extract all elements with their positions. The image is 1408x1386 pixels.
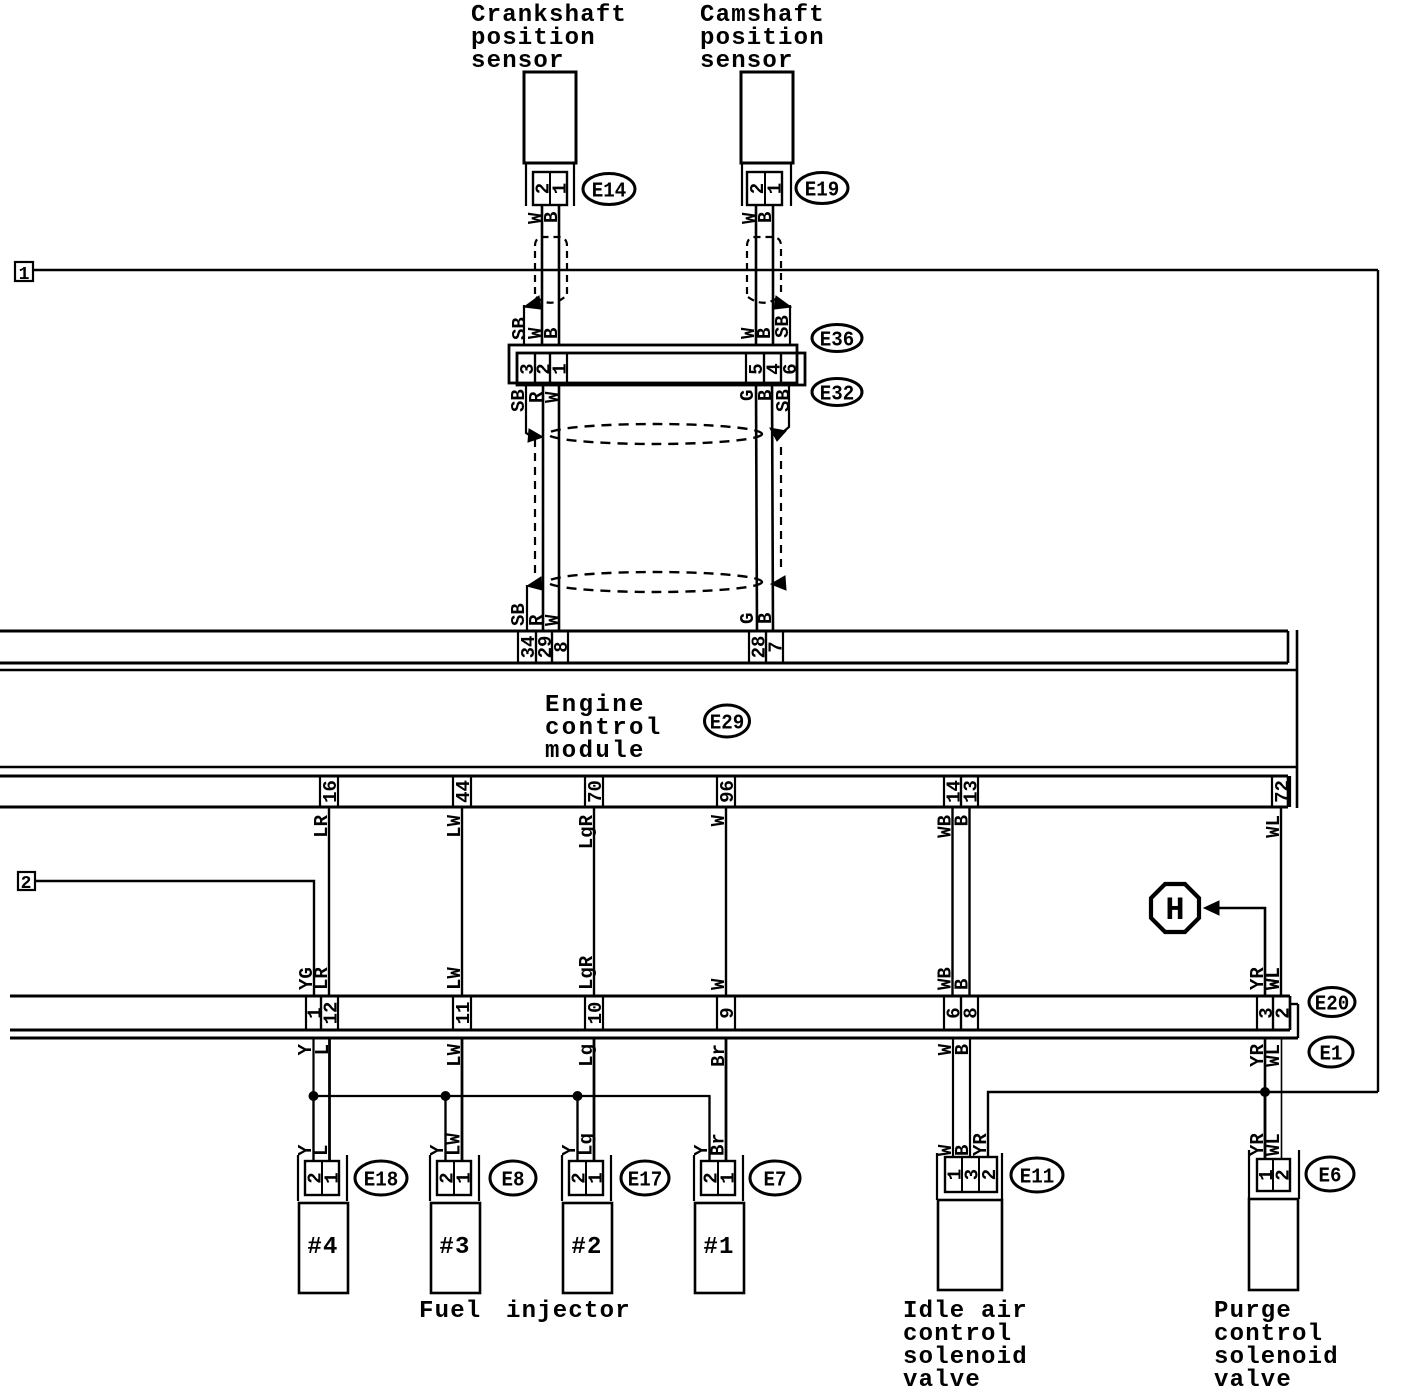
connector E20 oval label: [1309, 988, 1355, 1017]
svg-text:1: 1: [586, 1172, 608, 1183]
wire WB from ECM to E20: [951, 807, 953, 996]
svg-text:valve: valve: [903, 1367, 981, 1386]
wire from node 1 right side down: [1377, 270, 1379, 1092]
svg-text:B: B: [541, 328, 563, 339]
wire B from E1 pin 8 to E11 pin 3: [969, 1038, 971, 1157]
wire LW from ECM to E20: [461, 807, 463, 996]
svg-text:injector: injector: [506, 1298, 631, 1325]
svg-text:E36: E36: [820, 330, 855, 353]
arrow pointing to H: [1204, 901, 1219, 915]
fuel injector group label: [419, 1298, 631, 1325]
svg-text:E11: E11: [1020, 1167, 1055, 1190]
wire W from E32 pin 1 to ECM 8: [558, 385, 561, 632]
svg-text:E8: E8: [502, 1170, 525, 1193]
svg-text:#2: #2: [571, 1234, 602, 1261]
svg-text:SB: SB: [773, 389, 795, 412]
connector E6 pin box pins 1,2: [1256, 1159, 1295, 1191]
svg-text:E17: E17: [628, 1170, 663, 1193]
svg-text:2: 2: [979, 1169, 1001, 1180]
svg-text:LR: LR: [311, 814, 333, 837]
idle air control solenoid valve label: [903, 1298, 1028, 1386]
junction dot YR purge: [1260, 1087, 1270, 1097]
svg-text:L: L: [311, 1145, 333, 1156]
shield dashed drain left: [534, 439, 536, 577]
wire YR into E6 pin 1: [1264, 1092, 1267, 1159]
wire from node 1 across top: [33, 269, 1378, 271]
wire Y from E1 pin 1 to injector bus: [312, 1038, 314, 1161]
Y branch to injector 2: [576, 1096, 578, 1161]
wire YG from node 2 to E20 pin 1: [35, 881, 314, 996]
connector E18 oval label: [355, 1161, 407, 1195]
svg-text:E6: E6: [1319, 1166, 1342, 1189]
svg-text:E29: E29: [710, 713, 745, 736]
wire Y into E17 pin 2: [576, 1096, 578, 1161]
svg-text:10: 10: [585, 1002, 607, 1025]
svg-text:1: 1: [550, 363, 572, 374]
wire W from E1 pin 6 to E11 pin 1: [952, 1038, 954, 1157]
svg-text:7: 7: [766, 641, 788, 652]
svg-text:WL: WL: [1263, 1133, 1285, 1156]
shield drain arrow upper right: [770, 428, 786, 441]
wire R from E32 pin 2 to ECM 29: [542, 385, 545, 632]
svg-text:W: W: [708, 978, 730, 990]
svg-text:E20: E20: [1315, 994, 1350, 1017]
svg-text:Br: Br: [708, 1044, 730, 1067]
svg-text:13: 13: [961, 780, 983, 803]
svg-text:E32: E32: [820, 384, 855, 407]
junction dot injector 3: [441, 1091, 451, 1101]
fuel injector #2 pin box pins 2,1: [569, 1161, 608, 1195]
camshaft position sensor label: [700, 2, 825, 75]
node 2 box (page connector): [18, 872, 35, 890]
ECM bottom row pin cells 16,44,70,96,14,13,72: [320, 776, 1294, 807]
svg-text:B: B: [541, 212, 563, 223]
wire B from E19 pin 1: [772, 205, 775, 345]
connector E8 oval label: [490, 1161, 536, 1195]
junction dot injector 4: [309, 1091, 319, 1101]
fuel injector #4 body: [299, 1203, 348, 1293]
svg-text:44: 44: [453, 780, 475, 803]
svg-text:LW: LW: [444, 967, 466, 990]
idle air control valve body: [938, 1200, 1002, 1290]
connector E29 oval label: [705, 705, 750, 737]
fuel injector #3 body: [431, 1203, 480, 1293]
wire B from ECM to E20: [968, 807, 970, 996]
connector E14 pin box pins 2,1: [533, 172, 572, 205]
fuel injector #2 connector housing: [562, 1155, 611, 1201]
svg-text:W: W: [542, 391, 564, 403]
shield drain wire SB to E36 pin 3: [523, 305, 525, 345]
wire B from E14 pin 1: [558, 205, 561, 345]
ECM top row pin cells 34,29,8,28,7: [518, 631, 788, 663]
wire W from E14 pin 2: [541, 205, 544, 345]
svg-text:#3: #3: [439, 1234, 470, 1261]
svg-text:Lg: Lg: [576, 1044, 598, 1067]
ECM bottom connector row: [0, 776, 1288, 807]
shield drain wire SB to E36 pin 6: [789, 305, 791, 345]
svg-text:1: 1: [550, 183, 572, 194]
H symbol (to next page) octagon: [1151, 884, 1199, 932]
wire Y into E8 pin 2: [444, 1096, 446, 1161]
svg-text:8: 8: [961, 1007, 983, 1018]
fuel injector #4 connector housing: [298, 1155, 347, 1201]
connector E20 row: [10, 996, 1290, 1030]
svg-text:LW: LW: [444, 1133, 466, 1156]
wire W from E19 pin 2: [755, 205, 758, 345]
wire B from E32 pin 4 to ECM 7: [772, 385, 773, 632]
svg-text:#1: #1: [703, 1234, 734, 1261]
fuel injector #4 pin box pins 2,1: [305, 1161, 344, 1195]
svg-text:Fuel: Fuel: [419, 1298, 481, 1325]
ECM top connector row: [0, 631, 1288, 663]
svg-text:Br: Br: [708, 1133, 730, 1156]
YR bus from E11 pin 2 to node 1 wire: [988, 1092, 1378, 1157]
wire YR from E20 pin 3 to H: [1218, 908, 1265, 996]
purge control valve body: [1249, 1199, 1298, 1290]
shield drain arrow (crank, to E36 pin 3): [524, 296, 541, 309]
connector E14 housing: [526, 163, 574, 206]
connector E36 oval label: [812, 325, 862, 353]
idle air control valve connector housing: [937, 1153, 1002, 1200]
wire LgR from ECM to E20: [593, 807, 595, 996]
svg-text:E14: E14: [592, 181, 627, 204]
fuel injector #1 connector housing: [694, 1155, 743, 1201]
shield drain arrow (cam, to E36 pin 6): [774, 296, 791, 309]
svg-text:E18: E18: [364, 1170, 399, 1193]
svg-text:1: 1: [718, 1172, 740, 1183]
svg-text:9: 9: [717, 1007, 739, 1018]
connector E7 oval label: [750, 1161, 800, 1195]
shield drain arrow upper left: [528, 429, 543, 442]
connector E17 oval label: [621, 1161, 669, 1195]
shield oval upper (dashed ellipse): [548, 424, 762, 444]
svg-text:B: B: [952, 815, 974, 826]
connector E6 oval label: [1306, 1157, 1354, 1191]
wire WL from E1 pin 2 to E6 pin 2: [1281, 1038, 1283, 1159]
engine control module label: [545, 692, 663, 765]
svg-text:module: module: [545, 738, 646, 765]
svg-text:16: 16: [320, 780, 342, 803]
wire G from E32 pin 5 to ECM 28: [756, 385, 757, 632]
ECM body box: [0, 630, 1297, 808]
connector E19 pin box pins 2,1: [747, 172, 787, 205]
fuel injector #2 body: [563, 1203, 612, 1293]
shield oval lower (dashed ellipse): [548, 572, 762, 592]
shield drain SB below E32 pin 3: [526, 385, 531, 436]
svg-text:W: W: [708, 814, 730, 826]
E36/E32 pin cells 3,2,1 and 5,4,6: [517, 353, 802, 385]
svg-text:72: 72: [1272, 780, 1294, 803]
svg-text:1: 1: [19, 265, 30, 285]
svg-text:WL: WL: [1263, 815, 1285, 838]
svg-text:B: B: [755, 212, 777, 223]
connector E11 oval label: [1011, 1158, 1063, 1192]
svg-text:valve: valve: [1214, 1367, 1292, 1386]
svg-text:6: 6: [780, 363, 802, 374]
wire WL from ECM to E20: [1280, 807, 1282, 996]
svg-text:LgR: LgR: [576, 955, 598, 990]
purge control solenoid valve label: [1214, 1298, 1339, 1386]
camshaft position sensor body: [741, 72, 793, 163]
node 1 box (page connector): [15, 262, 33, 281]
svg-text:E19: E19: [805, 180, 840, 203]
wire LW from E1 pin 11 to injector 3: [461, 1038, 464, 1161]
wire W from ECM to E20: [725, 807, 727, 996]
svg-text:WL: WL: [1263, 1044, 1285, 1067]
svg-text:B: B: [952, 1145, 974, 1156]
shield around cam sensor wires (dashed): [747, 237, 781, 294]
svg-text:B: B: [952, 1044, 974, 1055]
wire LR from ECM to E20: [328, 807, 330, 996]
connector E36 box: [509, 345, 797, 383]
junction dot injector 2: [573, 1091, 583, 1101]
svg-text:W: W: [542, 614, 564, 626]
shield dashed drain right: [780, 447, 782, 573]
svg-text:E7: E7: [764, 1170, 787, 1193]
connector E32 oval label: [812, 379, 862, 407]
connector E1 oval label: [1309, 1037, 1353, 1067]
crankshaft position sensor label: [471, 2, 627, 75]
wire Y into E7 pin 2: [708, 1096, 710, 1161]
fuel injector #3 connector housing: [430, 1155, 479, 1201]
svg-text:B: B: [952, 979, 974, 990]
shield drain arrow lower right: [771, 576, 786, 590]
fuel injector #3 pin box pins 2,1: [437, 1161, 476, 1195]
svg-text:LgR: LgR: [576, 814, 598, 849]
purge control valve connector housing: [1249, 1150, 1299, 1199]
svg-text:1: 1: [322, 1172, 344, 1183]
svg-text:LW: LW: [444, 814, 466, 837]
svg-text:96: 96: [717, 780, 739, 803]
svg-text:E1: E1: [1320, 1044, 1343, 1067]
fuel injector #1 body: [695, 1203, 744, 1293]
svg-text:YG: YG: [296, 967, 318, 990]
connector E32 box: [517, 353, 805, 385]
wire Br from E1 pin 9 to injector 1: [725, 1038, 728, 1161]
E20/E1 pin cells: [305, 996, 1295, 1030]
crankshaft position sensor body: [524, 72, 576, 163]
svg-text:2: 2: [1273, 1169, 1295, 1180]
shield around crank sensor wires (dashed): [535, 237, 567, 294]
svg-text:B: B: [754, 328, 776, 339]
fuel injector #1 pin box pins 2,1: [701, 1161, 740, 1195]
injector common Y bus: [314, 1096, 710, 1161]
svg-text:1: 1: [765, 183, 787, 194]
shield drain SB below E32 pin 6: [783, 385, 789, 432]
svg-text:8: 8: [551, 641, 573, 652]
svg-text:#4: #4: [307, 1234, 338, 1261]
svg-text:L: L: [312, 1044, 334, 1055]
wire L from E1 pin 12 to injector 4: [328, 1038, 331, 1161]
shield drain arrow lower left: [527, 577, 542, 590]
wire Y into E18 pin 2: [312, 1096, 314, 1161]
svg-text:WL: WL: [1263, 967, 1285, 990]
Y branch to injector 3: [444, 1096, 446, 1161]
shield drain SB into ECM 34: [526, 585, 528, 632]
svg-text:B: B: [755, 613, 777, 624]
svg-text:1: 1: [454, 1172, 476, 1183]
wire Lg from E1 pin 10 to injector 2: [593, 1038, 596, 1161]
connector E19 housing: [742, 163, 791, 206]
connector E14 oval label: [583, 174, 635, 205]
svg-text:2: 2: [1273, 1007, 1295, 1018]
svg-text:LW: LW: [444, 1043, 466, 1066]
svg-text:11: 11: [453, 1002, 475, 1025]
svg-text:Lg: Lg: [576, 1133, 598, 1156]
svg-text:2: 2: [21, 874, 32, 894]
svg-text:12: 12: [321, 1002, 343, 1025]
svg-text:70: 70: [585, 780, 607, 803]
connector E11 pin box pins 1,3,2: [945, 1157, 1002, 1192]
svg-text:H: H: [1165, 892, 1184, 929]
connector E1 row (offset behind E20): [10, 1004, 1298, 1038]
connector E19 oval label: [796, 173, 848, 204]
wire YR from E1 pin 3 to purge valve: [1264, 1038, 1267, 1159]
